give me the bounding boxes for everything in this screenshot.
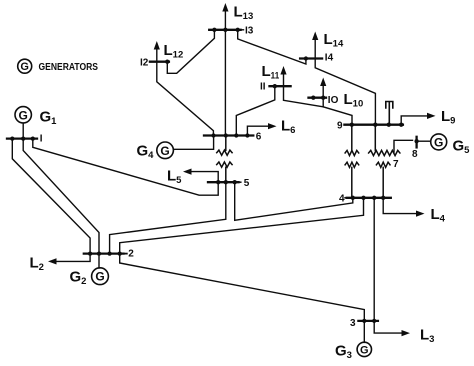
- bus 5 bar: [208, 181, 239, 183]
- node dots bus 1: [10, 136, 35, 140]
- svg-text:L9: L9: [441, 108, 455, 127]
- wire 12-13: [167, 30, 214, 74]
- node dot bus 12: [165, 60, 169, 64]
- generator G1 circle: [15, 107, 31, 139]
- svg-text:G: G: [160, 144, 169, 158]
- wire 10-9: [323, 98, 352, 125]
- load L2 arrow: [48, 254, 90, 265]
- svg-text:G: G: [360, 345, 369, 357]
- generator G4 circle and lead: [157, 136, 214, 159]
- wire 5-4: [235, 182, 353, 220]
- transformer 5-6 winding bottom: [217, 162, 232, 182]
- svg-text:L14: L14: [324, 31, 344, 50]
- bus 11 bar: [270, 85, 291, 87]
- svg-text:L11: L11: [262, 63, 280, 82]
- svg-text:7: 7: [393, 159, 399, 170]
- bus 9 bar: [344, 124, 403, 126]
- generator G2 circle: [92, 254, 109, 285]
- svg-text:II: II: [260, 81, 266, 92]
- bus 8 tick: [415, 137, 417, 148]
- svg-text:9: 9: [337, 120, 343, 131]
- wire 4-3: [373, 198, 375, 321]
- generator G5 circle and lead: [417, 134, 447, 150]
- svg-text:I3: I3: [245, 25, 254, 36]
- svg-text:I4: I4: [325, 53, 334, 64]
- wire 2-4: [120, 198, 364, 254]
- wire 14-9: [315, 59, 375, 125]
- svg-text:5: 5: [244, 178, 250, 189]
- wire 12-6: [157, 62, 214, 136]
- svg-text:G: G: [95, 270, 104, 284]
- svg-text:L5: L5: [167, 168, 182, 187]
- load L13 arrow: [222, 3, 228, 30]
- bus 1 bar: [7, 137, 37, 139]
- load L11 arrow: [280, 66, 286, 86]
- node dot bus 8: [414, 139, 418, 143]
- node dots bus 13: [212, 28, 240, 32]
- node dot bus 10: [311, 96, 325, 100]
- wire 13-6: [224, 30, 226, 136]
- node 7 tap wire to bus 8: [394, 140, 413, 152]
- svg-text:G1: G1: [40, 109, 58, 128]
- bus 10 bar: [309, 97, 327, 99]
- svg-text:G: G: [19, 108, 28, 122]
- wire 11-6: [236, 86, 274, 135]
- transformer 7-4 winding bottom: [376, 162, 390, 198]
- svg-text:L4: L4: [431, 206, 446, 225]
- svg-text:I2: I2: [140, 57, 149, 68]
- svg-text:3: 3: [350, 318, 356, 329]
- load L3 arrow: [374, 321, 410, 336]
- node dots bus 4: [351, 196, 386, 200]
- transformer 9-4 winding top: [345, 125, 359, 156]
- load L6 arrow: [247, 123, 276, 135]
- bus 12 bar: [150, 61, 169, 63]
- bus 4 bar: [345, 197, 347, 199]
- legend generator circle: [18, 59, 32, 73]
- wire 11-10: [284, 86, 324, 107]
- svg-text:4: 4: [339, 193, 345, 204]
- load L9 arrow: [401, 113, 435, 125]
- transformer 9-4 winding bottom: [345, 162, 359, 198]
- transformer 9-7-4 wide winding: [369, 125, 400, 156]
- node dots bus 6: [211, 133, 249, 137]
- load L4 arrow: [383, 198, 424, 217]
- wire 1-2 inner: [23, 139, 99, 254]
- wire 2-3: [120, 254, 365, 321]
- svg-text:L12: L12: [164, 42, 184, 61]
- svg-text:G: G: [20, 61, 29, 73]
- load L14 arrow: [312, 32, 318, 59]
- svg-text:G4: G4: [137, 143, 155, 162]
- svg-text:G: G: [434, 135, 443, 149]
- wire 1-5: [33, 139, 218, 196]
- svg-text:L3: L3: [420, 327, 434, 346]
- load L12 arrow: [154, 41, 160, 62]
- svg-text:G3: G3: [335, 343, 352, 362]
- svg-text:8: 8: [412, 149, 418, 160]
- wire 2-5: [110, 182, 226, 253]
- generator G3 circle: [357, 321, 371, 357]
- bus 2 bar: [84, 252, 124, 254]
- node dot bus 11: [273, 84, 277, 88]
- svg-text:L2: L2: [30, 255, 44, 274]
- node dot bus 14: [304, 56, 308, 60]
- bus 14 bar: [300, 57, 322, 59]
- svg-text:GENERATORS: GENERATORS: [39, 61, 99, 73]
- svg-text:2: 2: [128, 249, 134, 260]
- svg-text:G2: G2: [70, 269, 87, 288]
- svg-text:6: 6: [256, 131, 262, 142]
- svg-text:IO: IO: [328, 95, 339, 106]
- node dots bus 5: [216, 180, 237, 184]
- node dots bus 2: [88, 251, 122, 255]
- bus 3 bar: [358, 320, 378, 322]
- load L10 arrow: [320, 78, 326, 98]
- transformer 5-6 winding top: [217, 136, 232, 156]
- node dots bus 3: [362, 319, 376, 323]
- bus 13 bar: [209, 29, 240, 31]
- svg-text:L6: L6: [281, 118, 295, 137]
- node dots bus 9: [350, 123, 404, 127]
- svg-text:G5: G5: [453, 138, 471, 157]
- load L5 arrow: [183, 169, 218, 183]
- svg-text:I: I: [40, 133, 43, 144]
- static capacitor symbol at bus 9: [386, 102, 393, 125]
- svg-text:L10: L10: [344, 91, 364, 110]
- wire 1-2 outer: [12, 139, 90, 254]
- svg-text:L13: L13: [234, 4, 254, 23]
- wire 13-14: [238, 30, 306, 64]
- bus 6 bar: [204, 134, 253, 136]
